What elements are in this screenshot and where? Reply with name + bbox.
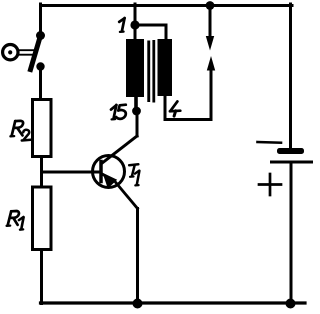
switch S1 lever [31, 36, 41, 70]
switch S1 bottom contact [36, 62, 44, 70]
label plus [259, 183, 281, 186]
label 1 [119, 18, 124, 32]
transformer primary winding (1-15) [126, 39, 144, 97]
transistor T1 base bar [99, 162, 103, 182]
node emitter-rail junction dot [133, 299, 143, 309]
transformer secondary winding (1-4) [158, 39, 173, 96]
transformer core [147, 41, 150, 103]
wire battery to bottom rail [290, 164, 293, 304]
battery GB1 positive plate [270, 161, 313, 164]
wire node 1 to top rail [134, 4, 137, 25]
wire R2 to R1 [40, 157, 43, 188]
spark gap F1 lower electrode [207, 56, 215, 71]
wire primary bottom to node 15 [134, 96, 138, 108]
label R2 [10, 121, 30, 141]
wire node 1 to primary winding [134, 25, 137, 40]
wire R1 to bottom rail [40, 250, 43, 304]
wire node 1 to secondary top [135, 25, 166, 40]
node battery-rail junction dot [286, 299, 296, 309]
node top-rail/spark-gap junction dot [206, 1, 215, 10]
switch S1 top contact [36, 31, 45, 40]
node 15 junction dot [132, 107, 141, 116]
wire base (R divider to T1) [42, 171, 101, 174]
transistor T1 collector lead [102, 136, 138, 164]
wire top rail [41, 4, 293, 7]
battery GB1 negative plate [277, 148, 304, 154]
label R1 [7, 211, 24, 230]
wire emitter to bottom rail [136, 209, 139, 304]
resistor R2 [33, 100, 52, 157]
switch S1 insulated handle [20, 49, 35, 51]
wire switch to R2 [39, 70, 42, 100]
wire left column top (rail to switch) [39, 4, 42, 33]
wire collector to node 15 [136, 111, 139, 136]
switch S1 knob [3, 45, 18, 60]
label 4 [170, 101, 180, 116]
resistor R1 [33, 187, 52, 250]
label 15 [111, 105, 126, 120]
transistor T1 emitter lead with arrow [102, 174, 138, 209]
wire bottom rail [41, 301, 306, 304]
transistor T1 circle [93, 156, 125, 188]
label minus [258, 141, 282, 144]
spark gap F1 upper electrode [209, 6, 212, 37]
wire right column (rail to battery) [289, 4, 292, 148]
wire pin 4 loop to spark gap [165, 70, 211, 120]
label T1 [129, 164, 139, 185]
node 1 junction dot [130, 20, 139, 29]
